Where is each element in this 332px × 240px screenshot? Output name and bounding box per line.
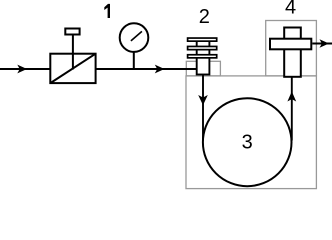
detector vertical body (component 4) bbox=[284, 28, 301, 77]
column C (circle 3) bbox=[203, 98, 292, 186]
detector gray box (around component 4) bbox=[266, 21, 317, 76]
arrow: outlet flow bbox=[320, 39, 330, 47]
regulator V1 box bbox=[50, 54, 95, 83]
arrow: flow direction before injector bbox=[155, 65, 165, 74]
svg-text:3: 3 bbox=[242, 132, 253, 154]
gauge needle bbox=[131, 31, 142, 41]
svg-text:4: 4 bbox=[285, 0, 296, 18]
gauge G1 circle bbox=[120, 23, 149, 52]
label 1 bbox=[104, 4, 110, 18]
wire: line from regulator to injector bbox=[96, 68, 197, 70]
regulator diagonal bbox=[50, 54, 95, 83]
injector fin bottom bbox=[188, 55, 217, 58]
svg-text:2: 2 bbox=[199, 6, 210, 28]
regulator knob bbox=[65, 29, 79, 35]
wire: column up to detector bbox=[291, 78, 293, 141]
regulator adjustment stem bbox=[72, 35, 74, 70]
gauge stem bbox=[133, 51, 135, 69]
injector fin top bbox=[188, 38, 217, 41]
wire: injector down to column bbox=[202, 75, 204, 141]
wire: outlet from detector bbox=[312, 43, 332, 45]
arrow: flow up into detector bbox=[287, 91, 296, 101]
injector fin middle bbox=[188, 46, 217, 49]
wire: inlet line left segment bbox=[0, 68, 50, 70]
arrow: flow direction on inlet line bbox=[17, 65, 27, 74]
injector body (component 2) bbox=[197, 40, 210, 75]
arrow: flow down into column bbox=[198, 95, 208, 105]
injector gray box (around component 2 body) bbox=[186, 61, 220, 76]
detector cross bar bbox=[270, 39, 311, 50]
oven enclosure (big gray box) bbox=[186, 76, 316, 189]
